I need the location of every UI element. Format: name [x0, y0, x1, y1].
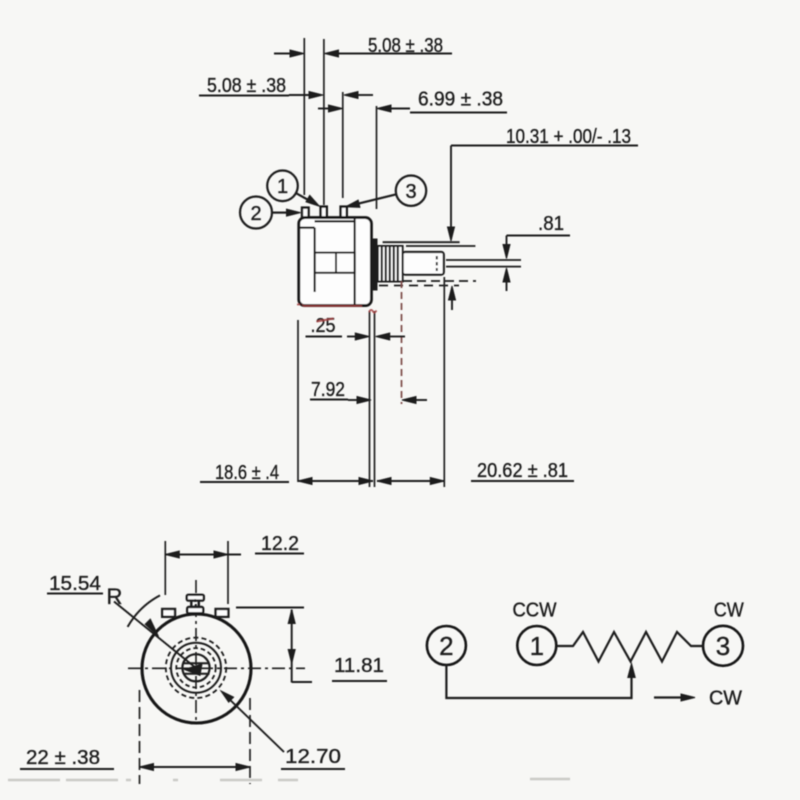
svg-text:11.81: 11.81	[334, 655, 384, 677]
svg-text:20.62 ± .81: 20.62 ± .81	[477, 460, 568, 482]
svg-text:18.6 ± .4: 18.6 ± .4	[215, 462, 279, 484]
svg-text:CW: CW	[714, 600, 744, 622]
svg-text:2: 2	[250, 203, 261, 225]
svg-text:3: 3	[405, 181, 416, 203]
svg-text:CCW: CCW	[513, 600, 557, 622]
svg-text:.81: .81	[538, 213, 564, 235]
svg-text:5.08 ± .38: 5.08 ± .38	[368, 35, 443, 57]
svg-text:12.2: 12.2	[261, 533, 299, 555]
svg-text:1: 1	[530, 631, 544, 661]
svg-text:10.31 + .00/- .13: 10.31 + .00/- .13	[506, 126, 631, 148]
svg-text:7.92: 7.92	[311, 379, 345, 401]
svg-text:12.70: 12.70	[285, 746, 341, 768]
svg-text:2: 2	[439, 631, 453, 661]
svg-text:5.08 ± .38: 5.08 ± .38	[207, 75, 286, 97]
svg-text:CW: CW	[709, 688, 742, 710]
svg-text:3: 3	[716, 631, 730, 661]
svg-text:1: 1	[277, 176, 288, 198]
svg-text:6.99 ± .38: 6.99 ± .38	[418, 89, 503, 111]
svg-text:22 ± .38: 22 ± .38	[26, 747, 100, 769]
svg-text:15.54: 15.54	[49, 573, 101, 595]
